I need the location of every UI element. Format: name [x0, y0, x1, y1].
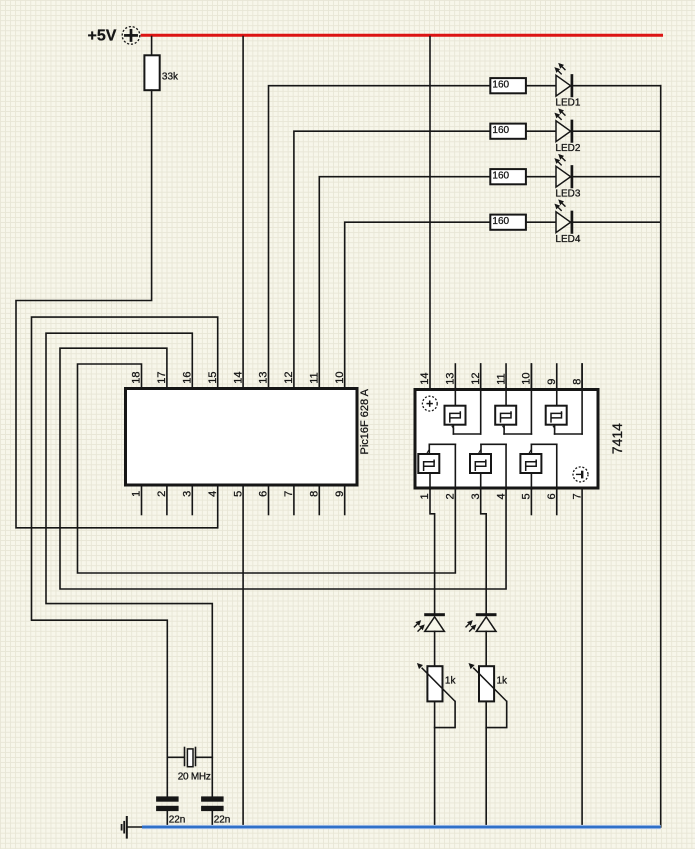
resistor 160 ohm #1 [490, 78, 526, 93]
wire PIC pin13 to resistor row 1 [269, 86, 491, 388]
resistor 160 ohm #4 [490, 215, 526, 230]
svg-text:9: 9 [546, 379, 558, 385]
svg-text:9: 9 [334, 491, 346, 497]
LED1 [554, 63, 580, 109]
svg-text:Pic16F 628 A: Pic16F 628 A [359, 388, 371, 454]
svg-text:1k: 1k [497, 675, 509, 686]
svg-text:1k: 1k [445, 675, 457, 686]
wire GND rail (net GND) [142, 825, 661, 829]
capacitor C2 22n [201, 796, 230, 825]
svg-text:17: 17 [156, 372, 168, 384]
svg-text:5: 5 [232, 491, 244, 497]
svg-text:160: 160 [492, 125, 509, 136]
svg-text:7: 7 [283, 491, 295, 497]
LED4 [554, 199, 580, 245]
wire LED2 cathode to GND column [573, 130, 661, 132]
7414 internal +5V pin marker [422, 396, 437, 411]
wire potentiometer 2 wiper to bottom terminal [486, 701, 507, 727]
resistor 160 ohm #3 [490, 169, 526, 184]
wire C1 to GND rail [166, 811, 168, 827]
wire PIC pin16 to crystal right (net OSC2) [46, 333, 212, 796]
svg-text:16: 16 [182, 372, 194, 384]
svg-text:20 MHz: 20 MHz [178, 771, 211, 782]
svg-text:10: 10 [334, 372, 346, 384]
PIC bottom pin numbers 1-9 [131, 491, 346, 497]
IC U1 Pic16F 628 A [126, 388, 371, 485]
svg-text:7414: 7414 [609, 423, 625, 454]
capacitor C1 22n [156, 796, 185, 825]
wire LED1 cathode to GND column [573, 85, 661, 87]
wire LED4 cathode to GND column [573, 221, 661, 223]
svg-text:12: 12 [283, 372, 295, 384]
svg-text:+5V: +5V [88, 27, 117, 44]
wire 7414 pin14 VCC to +5V rail [429, 37, 431, 389]
wire photodiode 1 to potentiometer 1 [434, 631, 436, 666]
PIC unconnected bottom pin stubs (pins 1,2,3,6,7,8,9) [142, 487, 345, 515]
7414 inverter gate 5->6 [520, 444, 556, 489]
wire PIC pin10 to resistor row 4 [345, 222, 491, 387]
svg-text:LED2: LED2 [555, 143, 580, 154]
wire potentiometer 2 to GND rail [485, 701, 487, 827]
LED3 [554, 154, 580, 200]
wire PIC pin15 to crystal left (net OSC1) [32, 317, 218, 796]
potentiometer 1k #2 [469, 663, 509, 701]
wire resistor to LED3 anode [526, 176, 556, 178]
svg-text:18: 18 [131, 372, 143, 384]
PIC top pin numbers 18-10 [131, 372, 346, 384]
wire resistor to LED4 anode [526, 221, 556, 223]
svg-text:13: 13 [258, 372, 270, 384]
svg-text:33k: 33k [162, 72, 179, 83]
wire LED3 cathode to GND column [573, 176, 661, 178]
svg-text:4: 4 [207, 491, 219, 497]
svg-text:160: 160 [492, 80, 509, 91]
7414 bottom pin numbers 1-7 [419, 493, 583, 499]
svg-text:2: 2 [156, 491, 168, 497]
wire PIC pin17 to 7414 pin4 (net RX2) [60, 348, 506, 589]
wire 7414 pin7 GND to GND rail [581, 489, 583, 827]
7414 inverter gate 1->2 [418, 444, 455, 489]
ground symbol GND [122, 817, 143, 838]
svg-text:LED3: LED3 [555, 189, 580, 200]
svg-text:22n: 22n [214, 815, 231, 826]
svg-text:4: 4 [495, 493, 507, 499]
svg-text:160: 160 [492, 216, 509, 227]
svg-text:11: 11 [495, 373, 507, 384]
svg-text:160: 160 [492, 171, 509, 182]
svg-text:1: 1 [131, 491, 143, 497]
photodiode 1 (IR receiver) [414, 613, 445, 631]
wire PIC pin14 VDD to +5V rail [242, 37, 244, 388]
wire PIC pin11 to resistor row 3 [319, 177, 490, 388]
IC U2 7414 hex schmitt inverter body [415, 390, 625, 489]
7414 inverter gate 13->12 [445, 364, 481, 434]
svg-text:6: 6 [258, 491, 270, 497]
7414 top pin numbers 14-8 [419, 373, 583, 385]
wire photodiode 2 to potentiometer 2 [485, 631, 487, 666]
svg-text:3: 3 [182, 491, 194, 497]
svg-text:11: 11 [309, 372, 321, 383]
svg-text:2: 2 [445, 493, 457, 499]
7414 unconnected top pin stubs (pins 13,12,11,10,9,8) [455, 364, 582, 388]
svg-text:LED4: LED4 [555, 234, 580, 245]
7414 unconnected bottom pin stubs (pins 5,6) [531, 489, 556, 514]
svg-text:22n: 22n [169, 815, 186, 826]
svg-text:14: 14 [232, 372, 244, 384]
wire resistor to LED2 anode [526, 130, 556, 132]
wire 7414 pin3 to photodiode 2 [481, 489, 487, 613]
resistor 33k (MCLR pull-up) [144, 55, 179, 90]
wire potentiometer 1 to GND rail [434, 701, 436, 827]
potentiometer 1k #1 [417, 663, 457, 701]
resistor 160 ohm #2 [490, 124, 526, 139]
crystal Q1 20 MHz [178, 748, 211, 783]
wire crystal right lead [196, 756, 212, 758]
7414 internal GND pin marker [573, 467, 588, 482]
wire +5V rail to resistor 33k [151, 37, 153, 56]
svg-text:13: 13 [445, 373, 457, 385]
LED2 [554, 108, 580, 154]
wire PIC pin12 to resistor row 2 [294, 131, 490, 387]
wire PIC pin18 to 7414 pin2 (net RX1) [78, 364, 456, 573]
wire crystal left lead [167, 756, 184, 758]
wire C2 to GND rail [211, 811, 213, 827]
wire PIC pin5 VSS to GND rail [242, 487, 244, 827]
7414 inverter gate 3->4 [470, 444, 506, 489]
wire +5V rail (net +5V) [141, 34, 663, 37]
7414 inverter gate 11->10 [495, 364, 531, 434]
wire resistor to LED1 anode [526, 85, 556, 87]
power symbol +5V supply [88, 27, 140, 45]
svg-text:14: 14 [419, 373, 431, 385]
wire LED cathode column to GND rail [660, 86, 662, 827]
wire 7414 pin1 to photodiode 1 [430, 489, 435, 613]
7414 inverter gate 9->8 [546, 364, 582, 434]
svg-text:LED1: LED1 [555, 98, 580, 109]
svg-text:15: 15 [207, 372, 219, 384]
wire 33k to node MCLR nest [16, 90, 218, 528]
svg-text:8: 8 [309, 491, 321, 497]
photodiode 2 (IR receiver) [466, 613, 497, 631]
wire potentiometer 1 wiper to bottom terminal [435, 701, 456, 727]
